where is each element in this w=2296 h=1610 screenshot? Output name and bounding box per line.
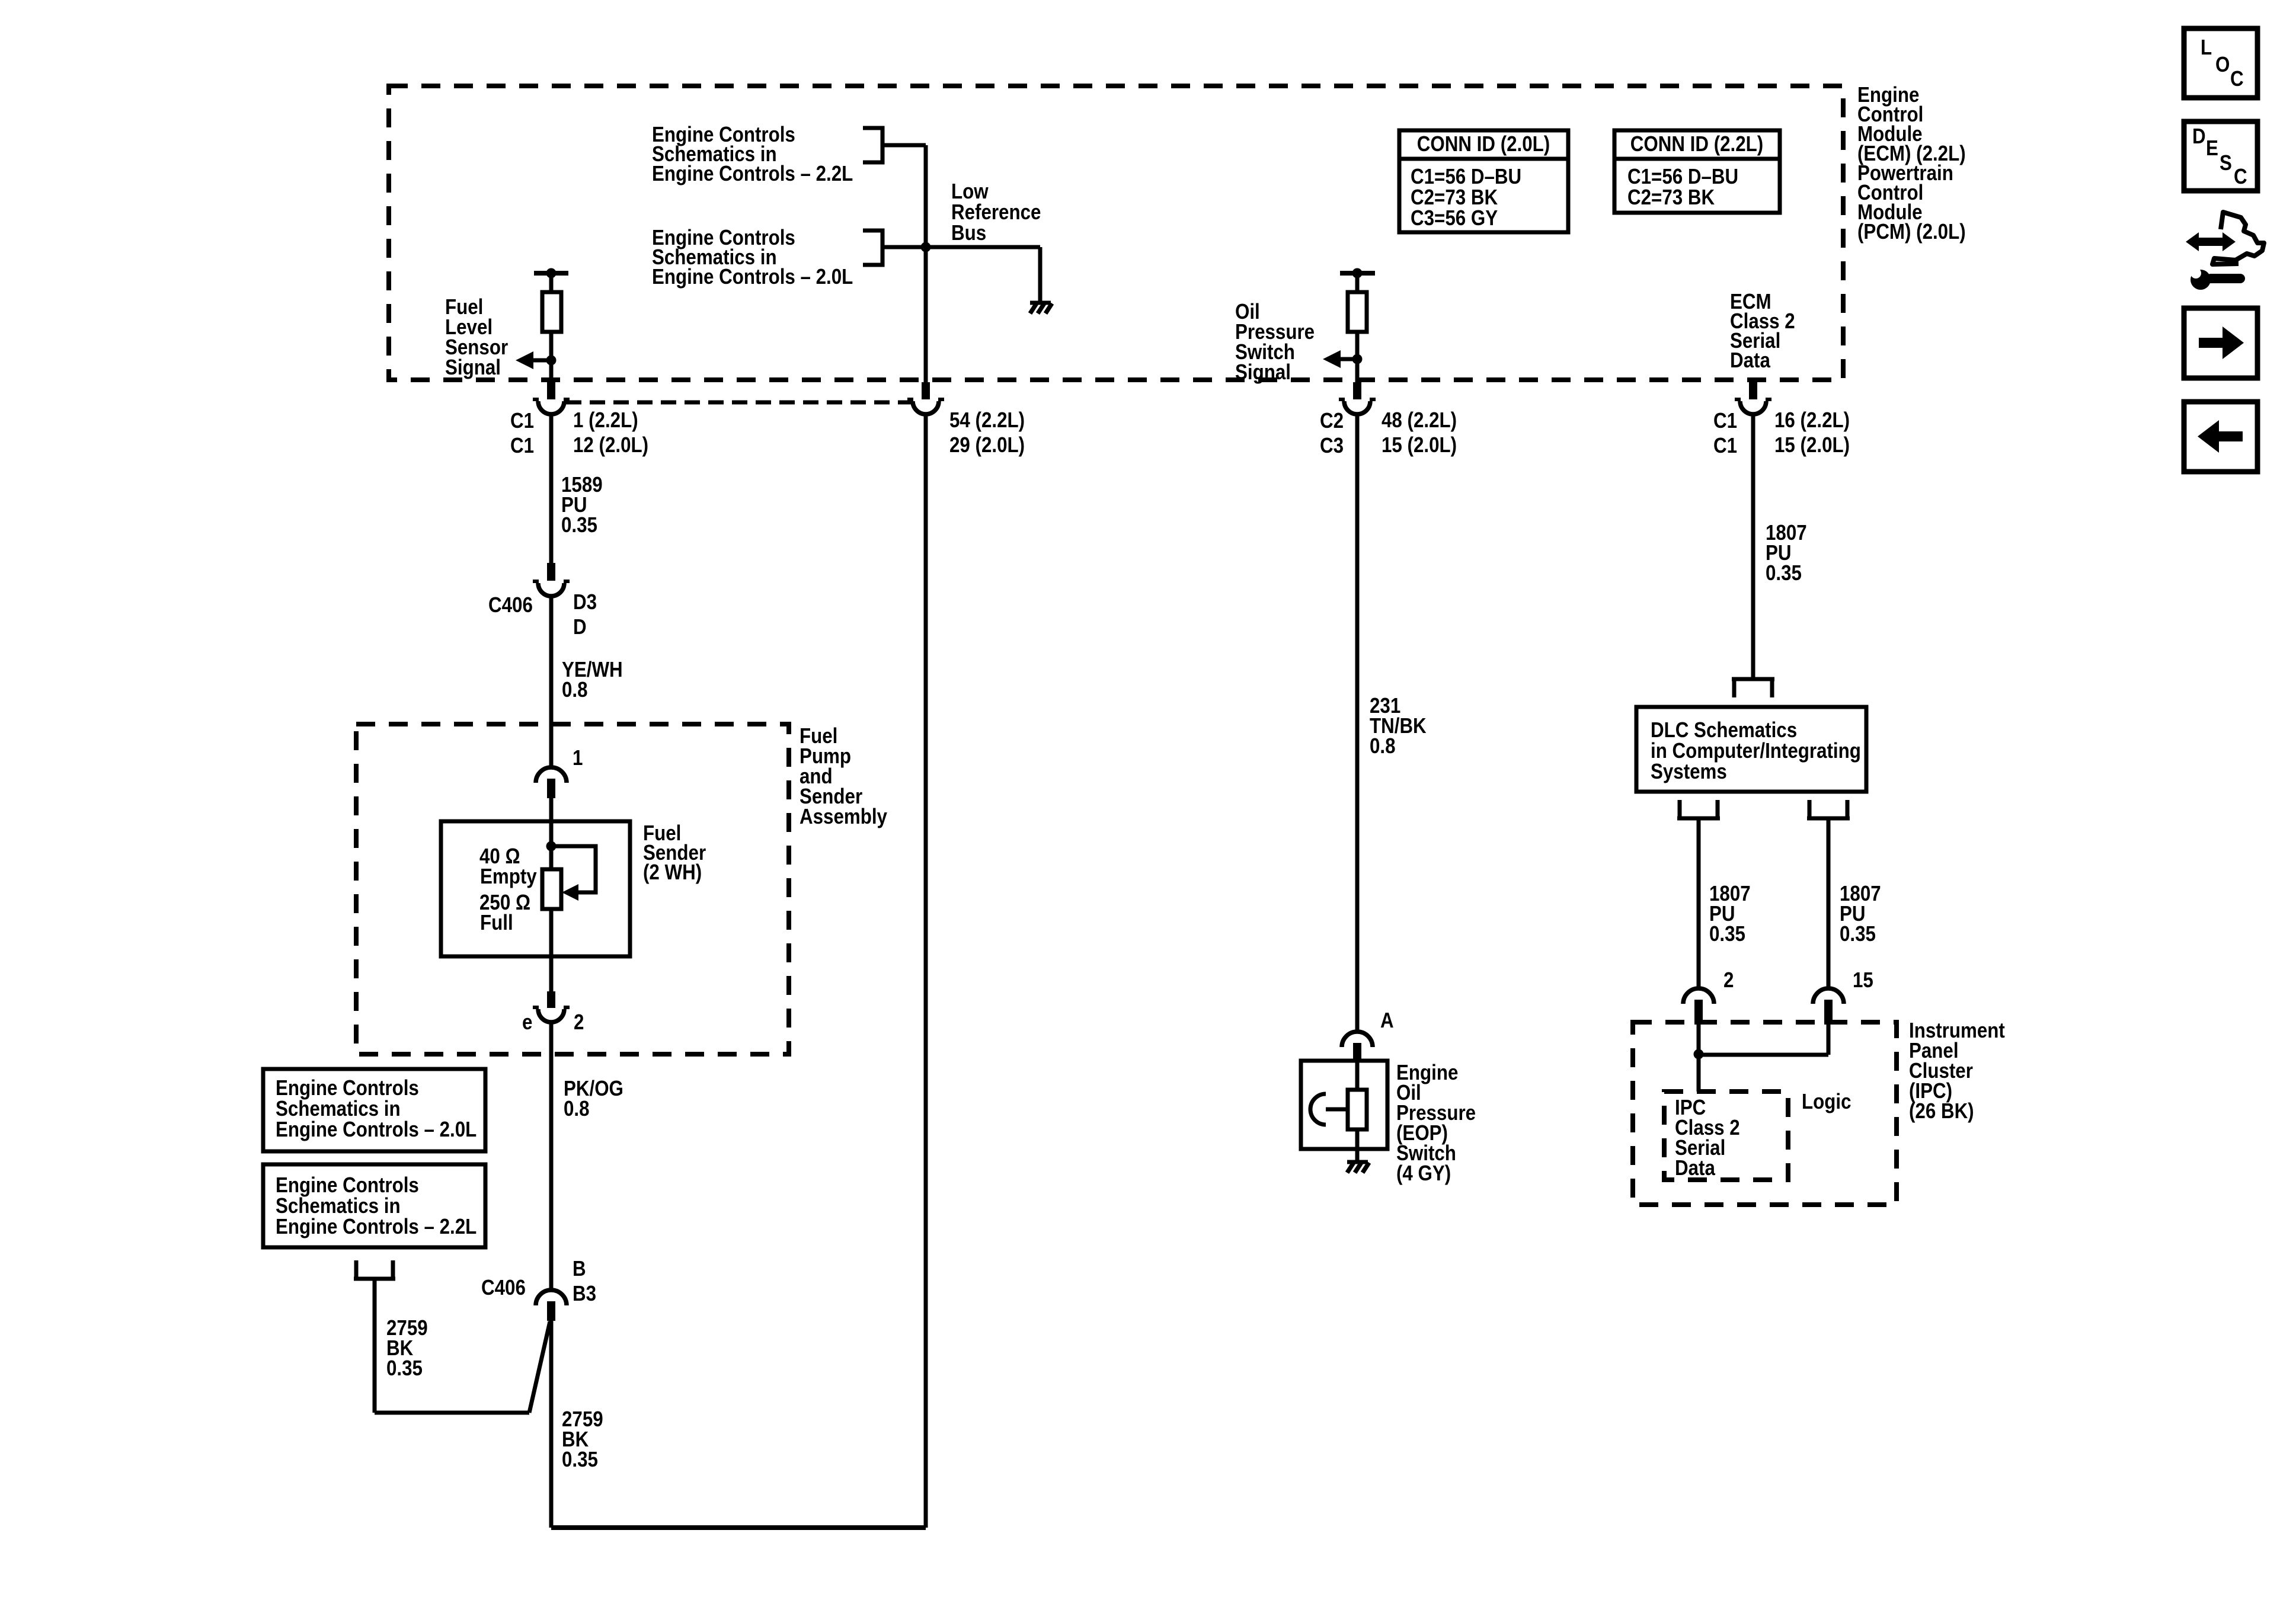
- svg-text:C3: C3: [1320, 434, 1344, 458]
- svg-text:Engine Controls – 2.0L: Engine Controls – 2.0L: [652, 265, 853, 289]
- svg-text:Bus: Bus: [951, 221, 986, 245]
- svg-text:Data: Data: [1675, 1156, 1715, 1180]
- svg-text:S: S: [2220, 151, 2232, 175]
- svg-text:1: 1: [573, 746, 583, 770]
- svg-text:Data: Data: [1730, 348, 1770, 373]
- svg-text:0.8: 0.8: [564, 1097, 590, 1121]
- svg-text:L: L: [2201, 36, 2212, 60]
- svg-text:15 (2.0L): 15 (2.0L): [1774, 433, 1850, 457]
- svg-text:C1: C1: [1713, 434, 1737, 458]
- svg-text:16 (2.2L): 16 (2.2L): [1774, 408, 1850, 433]
- svg-text:C1: C1: [1713, 409, 1737, 433]
- svg-text:A: A: [1380, 1009, 1394, 1033]
- svg-text:0.35: 0.35: [562, 1448, 598, 1472]
- svg-text:C: C: [2230, 67, 2244, 91]
- svg-text:Engine Controls – 2.0L: Engine Controls – 2.0L: [276, 1118, 477, 1142]
- svg-text:E: E: [2206, 136, 2218, 161]
- svg-text:D: D: [573, 615, 587, 639]
- svg-text:D3: D3: [573, 590, 597, 614]
- svg-text:C1: C1: [510, 434, 534, 458]
- svg-text:C1: C1: [510, 409, 534, 433]
- svg-text:0.35: 0.35: [1766, 561, 1802, 585]
- svg-text:(PCM) (2.0L): (PCM) (2.0L): [1857, 220, 1966, 244]
- svg-text:Full: Full: [480, 911, 513, 935]
- svg-text:C2=73 BK: C2=73 BK: [1627, 185, 1715, 210]
- svg-text:D: D: [2192, 124, 2206, 149]
- svg-text:Systems: Systems: [1651, 760, 1727, 784]
- svg-text:48 (2.2L): 48 (2.2L): [1382, 408, 1457, 433]
- svg-text:Signal: Signal: [1235, 360, 1291, 385]
- svg-text:C3=56 GY: C3=56 GY: [1411, 206, 1498, 231]
- svg-text:e: e: [522, 1010, 532, 1035]
- svg-text:0.8: 0.8: [1370, 734, 1396, 758]
- svg-text:0.35: 0.35: [561, 513, 597, 537]
- svg-text:2: 2: [574, 1010, 584, 1035]
- svg-text:0.8: 0.8: [562, 678, 588, 702]
- svg-text:C406: C406: [481, 1276, 526, 1300]
- svg-text:Logic: Logic: [1802, 1090, 1851, 1114]
- svg-text:Signal: Signal: [445, 356, 501, 380]
- svg-text:12 (2.0L): 12 (2.0L): [573, 433, 648, 457]
- svg-text:0.35: 0.35: [386, 1356, 423, 1381]
- svg-text:Assembly: Assembly: [800, 805, 887, 829]
- svg-text:0.35: 0.35: [1840, 922, 1876, 946]
- svg-text:CONN ID (2.0L): CONN ID (2.0L): [1417, 132, 1550, 156]
- svg-text:(26 BK): (26 BK): [1909, 1099, 1974, 1124]
- svg-text:15: 15: [1853, 968, 1873, 993]
- svg-text:Empty: Empty: [480, 865, 537, 889]
- svg-text:B: B: [573, 1257, 586, 1281]
- svg-text:Engine Controls – 2.2L: Engine Controls – 2.2L: [652, 162, 853, 186]
- svg-text:0.35: 0.35: [1709, 922, 1745, 946]
- svg-text:CONN ID (2.2L): CONN ID (2.2L): [1630, 132, 1763, 156]
- svg-text:B3: B3: [573, 1282, 596, 1306]
- svg-text:C2: C2: [1320, 409, 1344, 433]
- svg-text:54 (2.2L): 54 (2.2L): [949, 408, 1025, 433]
- svg-text:1 (2.2L): 1 (2.2L): [573, 408, 638, 433]
- svg-text:C406: C406: [488, 593, 533, 617]
- svg-text:(4 GY): (4 GY): [1396, 1161, 1451, 1186]
- svg-text:29 (2.0L): 29 (2.0L): [949, 433, 1025, 457]
- svg-text:15 (2.0L): 15 (2.0L): [1382, 433, 1457, 457]
- svg-text:(2 WH): (2 WH): [643, 860, 702, 885]
- svg-text:Engine Controls – 2.2L: Engine Controls – 2.2L: [276, 1215, 477, 1239]
- svg-text:C: C: [2234, 165, 2247, 189]
- svg-text:2: 2: [1723, 968, 1734, 993]
- svg-text:O: O: [2215, 53, 2230, 77]
